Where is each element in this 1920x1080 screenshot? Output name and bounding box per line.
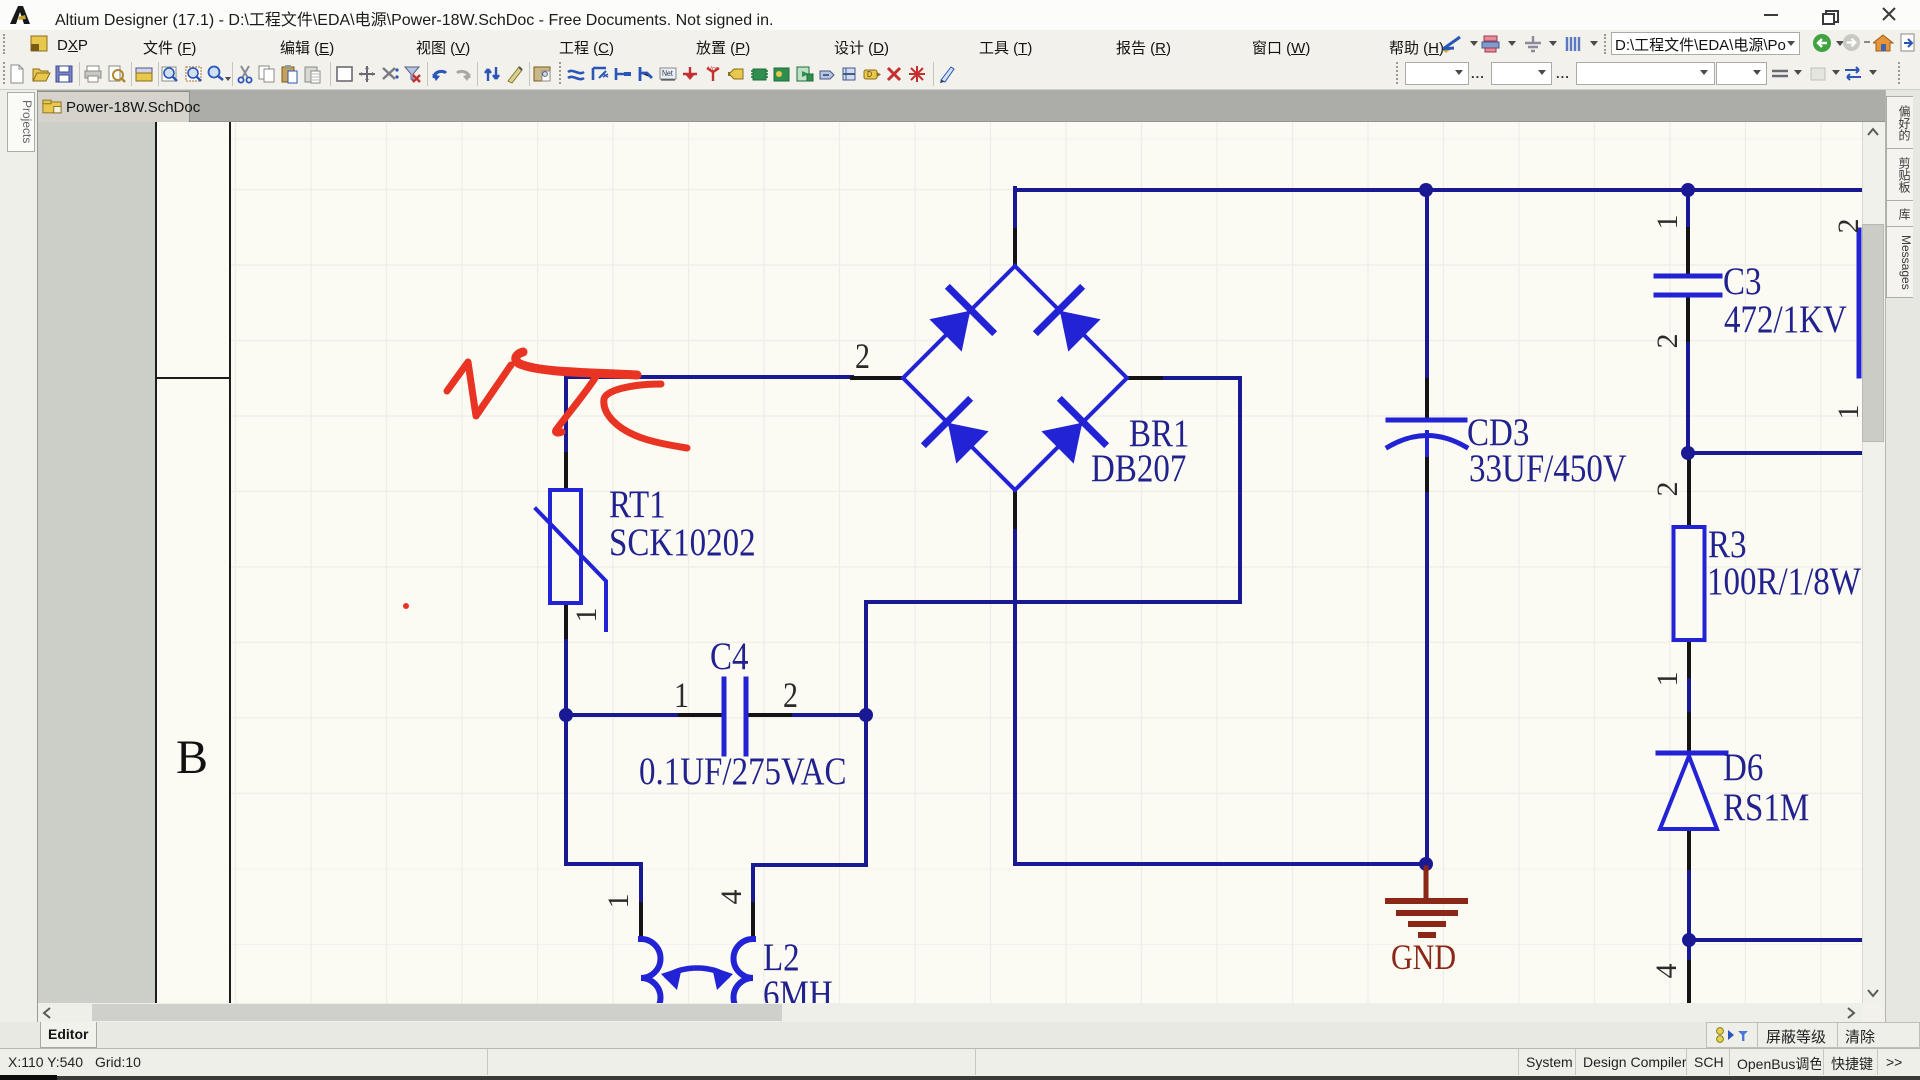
capacitor CD3 center stem [1425, 432, 1429, 455]
diode BR1-c (bottom-left) [926, 401, 987, 462]
wire node A to L2 pin1 [566, 715, 641, 904]
wire AC input to bridge left [566, 375, 852, 379]
ground bar 2 [1399, 910, 1455, 916]
pin RT1-2 bottom [564, 605, 568, 637]
svg-text:DB207: DB207 [1091, 446, 1186, 489]
pin RT1-1 top [564, 454, 568, 490]
capacitor C3 plate 2 [1656, 293, 1720, 298]
transformer edge component at canvas right [1857, 230, 1862, 376]
wire top bus y=190 [1015, 188, 1861, 192]
svg-text:D6: D6 [1723, 745, 1763, 788]
pin C3-1 [1686, 229, 1690, 273]
junction node A (RT1/C4) [559, 708, 573, 722]
wire C4 left [566, 713, 680, 717]
junction node top-C3 [1681, 183, 1695, 197]
capacitor C3 plate 1 [1656, 274, 1720, 279]
wire below out node [1687, 940, 1691, 962]
svg-text:1: 1 [1651, 215, 1684, 230]
junction node GND [1419, 857, 1433, 871]
pin CD3-2 [1425, 455, 1429, 490]
sheet [155, 122, 1862, 1003]
pin L2-4 [751, 904, 755, 939]
pin CD3-1 [1425, 380, 1429, 418]
pin out bottom edge [1687, 962, 1691, 1003]
svg-text:6MH: 6MH [763, 972, 833, 1003]
wire C4 right [790, 713, 866, 717]
annotation red NTC letter T [516, 352, 637, 433]
diode D6 cathode bar [1658, 751, 1726, 756]
capacitor C4 plate 2 [744, 679, 749, 754]
wire bridge right return [866, 378, 1240, 715]
wire D6 to out node [1689, 868, 1861, 940]
diode BR1-a (left-top) [931, 289, 992, 350]
capacitor C4 plate 1 [722, 679, 727, 754]
ground bar 3 [1411, 921, 1443, 927]
svg-text:4: 4 [715, 890, 748, 905]
svg-text:472/1KV: 472/1KV [1724, 297, 1847, 340]
capacitor CD3 plate curved [1388, 436, 1466, 448]
svg-text:Vcc: Vcc [708, 66, 719, 74]
inductor L2 winding a [641, 939, 661, 1017]
diode D6 triangle [1660, 756, 1717, 829]
svg-text:1: 1 [570, 608, 603, 623]
svg-text:2: 2 [783, 675, 798, 715]
junction node top-CD3 [1419, 183, 1433, 197]
diode BR1-d (bottom-right) [1043, 401, 1104, 462]
menu right icons [1440, 34, 1466, 54]
sheet border lines [155, 122, 157, 1003]
ground bar 1 [1388, 898, 1465, 904]
zone label B [176, 730, 208, 785]
junction node B (C4 right) [859, 708, 873, 722]
svg-text:C3: C3 [1723, 259, 1762, 302]
annotation red dot [403, 603, 409, 609]
svg-text:RT1: RT1 [609, 482, 666, 525]
resistor R3 body [1674, 527, 1705, 640]
wire C3 bottom to node [1688, 340, 1861, 453]
pin C4-2 [748, 713, 790, 717]
svg-text:4: 4 [1650, 964, 1683, 979]
inductor L2 coupling arrow [661, 967, 733, 990]
svg-text:1: 1 [602, 894, 635, 909]
thermistor RT1 body [550, 490, 581, 603]
pin R3-1 bottom [1687, 640, 1691, 676]
ground bar 4 [1421, 932, 1433, 938]
svg-text:C4: C4 [710, 634, 749, 677]
svg-text:2: 2 [855, 336, 870, 376]
junction node D6 out [1682, 933, 1696, 947]
svg-text:1: 1 [1651, 672, 1684, 687]
pin C3-2 [1686, 297, 1690, 340]
pin C4-1 [680, 713, 721, 717]
svg-text:GND: GND [1391, 937, 1456, 977]
pin bridge bottom [1013, 490, 1017, 527]
pin L2-1 [639, 904, 643, 939]
annotation red NTC letter N [447, 362, 511, 416]
wire bridge bottom to GND bus [1015, 527, 1426, 864]
wire RT1 bottom to node [564, 637, 568, 715]
svg-text:D: D [867, 69, 872, 79]
svg-text:2: 2 [1832, 219, 1862, 234]
svg-text:0.1UF/275VAC: 0.1UF/275VAC [639, 749, 846, 792]
wire bridge top drop [1013, 188, 1017, 230]
pin bridge right [1127, 376, 1161, 380]
wire CD3 bottom [1425, 490, 1429, 864]
pin bridge top [1013, 230, 1017, 266]
wire C3 top [1686, 188, 1690, 229]
svg-text:1: 1 [674, 675, 689, 715]
thermistor RT1 diagonal [536, 509, 606, 630]
junction node C3-R3 [1681, 446, 1695, 460]
ground GND stem [1424, 868, 1429, 901]
bridge BR1 diamond [903, 266, 1127, 490]
wire CD3 top [1425, 188, 1429, 380]
capacitor CD3 plate flat [1388, 418, 1465, 423]
svg-text:2: 2 [1651, 482, 1684, 497]
svg-text:33UF/450V: 33UF/450V [1469, 446, 1627, 489]
svg-text:Net: Net [662, 68, 674, 78]
wire RT1 top [564, 375, 568, 454]
diode BR1-b (right-top) [1038, 289, 1099, 350]
pin bridge left [852, 376, 903, 380]
inductor L2 winding b [734, 939, 753, 1017]
svg-text:1: 1 [1832, 405, 1862, 420]
svg-text:100R/1/8W: 100R/1/8W [1707, 559, 1861, 602]
svg-text:2: 2 [1651, 334, 1684, 349]
annotation red NTC letter C [604, 384, 687, 448]
svg-text:SCK10202: SCK10202 [609, 520, 756, 563]
pin D6 top [1687, 714, 1691, 751]
wire R3-D6 link [1687, 676, 1691, 714]
svg-text:RS1M: RS1M [1723, 785, 1809, 828]
pin D6 bottom [1687, 829, 1691, 868]
wire node B to L2 pin4 [753, 715, 866, 904]
pin R3-2 top [1687, 458, 1691, 527]
